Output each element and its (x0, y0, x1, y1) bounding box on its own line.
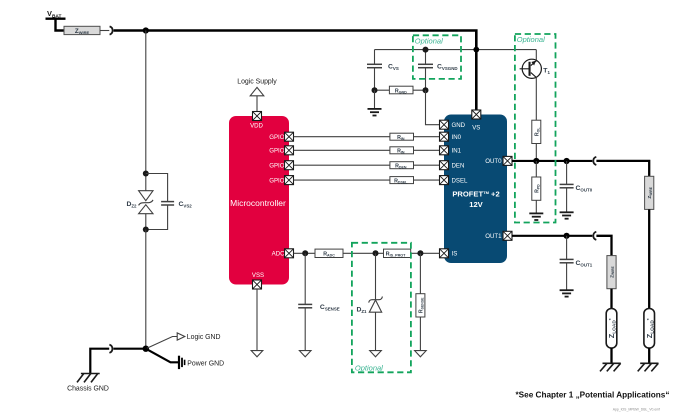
svg-text:CVS2: CVS2 (179, 201, 193, 208)
wire ZWIRE0 to ZLOAD0 (648, 209, 650, 308)
VBAT supply bar symbol (46, 19, 66, 31)
pin IN0 (440, 132, 449, 141)
wire OUT1 to load branch (596, 236, 611, 256)
node Logic Supply (237, 79, 277, 112)
svg-text:IS: IS (452, 251, 458, 258)
pin GPIO4 (285, 176, 294, 185)
resistor RDEN (390, 162, 414, 170)
wire ZLOAD0 to chassis (648, 348, 650, 363)
optional box CVSGND (413, 35, 461, 79)
footnote (516, 391, 670, 400)
junction VS rail (473, 47, 479, 53)
junction CSENSE/IS (302, 250, 308, 256)
svg-text:VDD: VDD (250, 122, 263, 129)
junction COUT1/OUT1 (564, 233, 570, 239)
capacitor CVS (367, 50, 399, 91)
svg-text:T1: T1 (543, 68, 550, 75)
wire OUT1 run (512, 235, 592, 237)
wire Z_WIRE to connector (100, 30, 109, 32)
capacitor CSENSE (298, 253, 340, 350)
svg-text:VSS: VSS (252, 272, 264, 279)
svg-text:12V: 12V (469, 200, 483, 209)
svg-text:IN1: IN1 (452, 148, 462, 155)
resistor RADC (315, 249, 343, 258)
node VBAT label (47, 9, 62, 20)
impedance Z_WIRE (battery feed) (64, 26, 100, 35)
svg-text:ADC: ADC (272, 251, 285, 258)
ground logic (VSS triangle) (251, 351, 263, 357)
resistor RIS_PROT (384, 249, 411, 257)
svg-text:DEN: DEN (452, 163, 465, 170)
svg-text:DSEL: DSEL (452, 177, 469, 184)
resistor RGND (375, 86, 426, 94)
svg-text:COUT1: COUT1 (576, 260, 593, 267)
junction DZ2 top (143, 171, 149, 177)
svg-text:COUT0: COUT0 (576, 185, 593, 192)
pin OUT1 (503, 231, 512, 240)
pin IN1 (440, 146, 449, 155)
pin VDD (253, 112, 262, 121)
pin VS (472, 110, 481, 119)
svg-text:GPIO: GPIO (269, 163, 284, 170)
wire to Power GND (146, 349, 178, 363)
wire VSS to logic ground (256, 289, 258, 351)
pin GPIO1 (285, 132, 294, 141)
wire DZ2 down to ground node (145, 230, 147, 349)
wire GPIO3 to DEN (294, 164, 440, 166)
pin DEN (440, 161, 449, 170)
capacitor COUT0 (560, 161, 593, 212)
wire ZWIRE1 to ZLOAD1 (610, 289, 612, 309)
wire ZLOAD1 to chassis (610, 348, 612, 363)
wire to CVS2 top (146, 174, 168, 202)
pin GPIO2 (285, 146, 294, 155)
resistor RIN (IN1) (390, 147, 414, 155)
svg-text:GPIO: GPIO (269, 177, 284, 184)
junction CVS top (423, 47, 429, 53)
svg-text:Optional: Optional (415, 36, 443, 45)
junction rail / DZ2 branch (143, 27, 149, 33)
diode DZ2 (bidirectional suppressor) (126, 191, 153, 230)
connector (inline connector arc, OUT0) (593, 157, 596, 165)
ground logic below DZ1 (370, 351, 382, 357)
optional box DZ1/RIS_PROT (352, 243, 411, 372)
ground logic below RSENSE (415, 351, 427, 357)
svg-text:Power GND: Power GND (187, 360, 224, 367)
capacitor COUT1 (560, 236, 593, 290)
wire to Logic GND arrow (146, 337, 177, 349)
pin GPIO3 (285, 161, 294, 170)
wire VS auxiliary rail (375, 49, 537, 51)
impedance Z_WIRE (OUT0 harness) (645, 176, 654, 209)
wire connector to chassis ground (90, 349, 109, 374)
capacitor CVSGND (418, 50, 458, 91)
wire ADC to IS (294, 252, 440, 254)
junction DZ2 bottom (143, 227, 149, 233)
connector (inline connector arc, battery rail) (110, 26, 113, 34)
pin IS (440, 249, 449, 258)
ground earth below RPD (529, 200, 543, 220)
ground earth below CVS (368, 90, 382, 115)
ground logic below CSENSE (299, 351, 311, 357)
optional box T1 (515, 34, 556, 223)
load ZLOAD0 (644, 309, 655, 349)
resistor RDSEL (390, 177, 414, 185)
ground earth below COUT0 (560, 212, 574, 218)
svg-text:*See Chapter 1 „Potential Appl: *See Chapter 1 „Potential Applications“ (516, 391, 670, 400)
junction ground star point (143, 346, 149, 352)
wire to chassis connector (113, 348, 145, 350)
ground Logic GND symbol (177, 333, 220, 341)
svg-text:Optional: Optional (355, 363, 383, 372)
wire GPIO1 to IN0 (294, 136, 440, 138)
pin OUT0 (503, 156, 512, 165)
svg-text:Optional: Optional (517, 35, 545, 44)
resistor RPD (532, 161, 541, 200)
wire main supply rail (114, 31, 477, 111)
svg-text:App_IOS_MPBW_DBL_V0.emf: App_IOS_MPBW_DBL_V0.emf (613, 407, 660, 411)
svg-text:IN0: IN0 (452, 134, 462, 141)
svg-text:DZ2: DZ2 (126, 201, 137, 208)
svg-text:CVSGND: CVSGND (437, 64, 458, 71)
svg-text:GND: GND (452, 122, 466, 129)
junction ROL/OUT0 (533, 158, 539, 164)
resistor RIN (IN0) (390, 133, 414, 141)
ground earth below COUT1 (560, 290, 574, 296)
pin DSEL (440, 176, 449, 185)
resistor RSENSE (416, 253, 425, 350)
wire T1 emitter to ROL (535, 77, 537, 120)
svg-text:GPIO: GPIO (269, 134, 284, 141)
wire GPIO4 to DSEL (294, 179, 440, 181)
pin ADC (285, 249, 294, 258)
ground chassis OUT1 (600, 363, 621, 371)
svg-text:Microcontroller: Microcontroller (230, 198, 286, 208)
microcontroller block U2 (229, 116, 289, 285)
ground chassis OUT0 (638, 363, 659, 371)
wire OUT0 run (512, 160, 592, 162)
svg-text:Logic GND: Logic GND (187, 334, 221, 341)
diode DZ1 (zener) (356, 253, 382, 350)
wire left branch down to DZ2 (145, 31, 147, 191)
svg-text:Chassis GND: Chassis GND (67, 386, 109, 393)
svg-text:OUT0: OUT0 (485, 158, 502, 165)
ground Chassis GND symbol (67, 374, 109, 393)
transistor T1 (520, 59, 551, 78)
capacitor CVS2 (146, 190, 192, 230)
svg-text:VS: VS (472, 125, 480, 132)
wire ROL to OUT0 (535, 144, 537, 162)
pin VSS (253, 280, 262, 289)
svg-text:CSENSE: CSENSE (320, 304, 340, 311)
junction CVSGND bottom (423, 87, 429, 93)
connector (inline connector arc, chassis path) (109, 345, 112, 353)
figure id text (613, 407, 660, 411)
ground Power GND symbol (179, 356, 224, 369)
svg-text:CVS: CVS (388, 64, 399, 71)
pin GND (440, 120, 449, 129)
load ZLOAD1 (606, 309, 617, 349)
svg-text:OUT1: OUT1 (485, 233, 502, 240)
impedance Z_WIRE (OUT1 harness) (607, 256, 616, 289)
svg-text:DZ1: DZ1 (356, 307, 367, 314)
svg-text:Logic Supply: Logic Supply (237, 79, 277, 86)
PROFET block U1 (444, 115, 507, 264)
wire rail to T1 collector (535, 50, 537, 61)
junction RSENSE/IS (417, 250, 423, 256)
connector (inline connector arc, OUT1) (593, 232, 596, 240)
resistor ROL (532, 120, 541, 143)
wire GPIO2 to IN1 (294, 149, 440, 151)
junction DZ1/IS (373, 250, 379, 256)
junction CVS bottom (372, 87, 378, 93)
wire OUT0 to load branch (596, 161, 649, 176)
wire CVSGND node to GND pin (426, 90, 440, 125)
junction COUT0/OUT0 (564, 158, 570, 164)
svg-text:PROFETTM +2: PROFETTM +2 (452, 189, 499, 198)
svg-text:GPIO: GPIO (269, 148, 284, 155)
